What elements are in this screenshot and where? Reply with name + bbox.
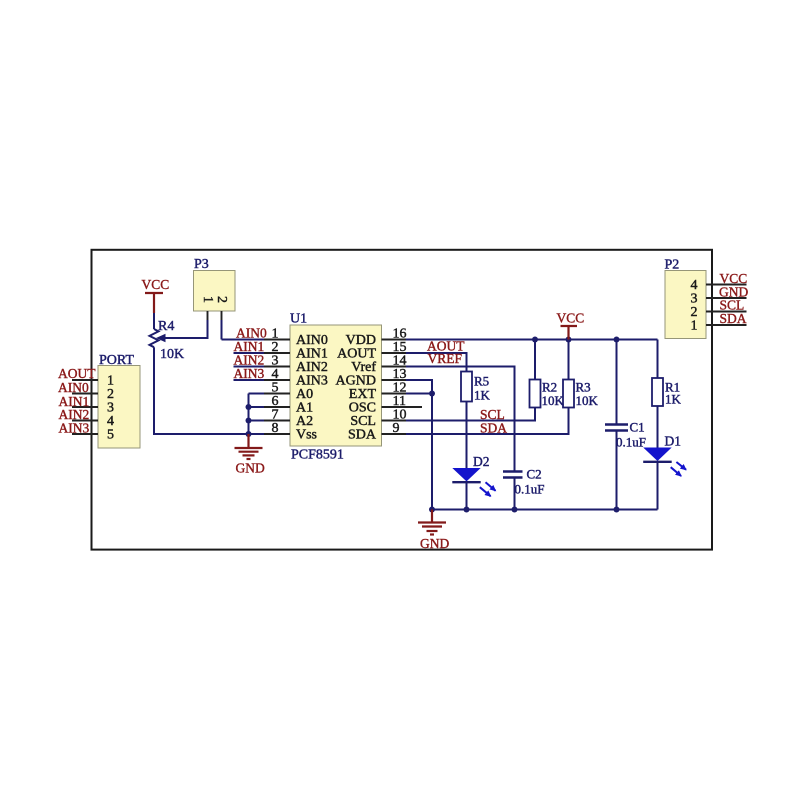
svg-text:AIN0: AIN0 bbox=[58, 380, 89, 395]
svg-text:10K: 10K bbox=[542, 393, 565, 408]
svg-text:U1: U1 bbox=[290, 312, 307, 327]
svg-text:R4: R4 bbox=[158, 319, 174, 334]
svg-text:SDA: SDA bbox=[348, 428, 377, 443]
svg-text:D2: D2 bbox=[473, 454, 490, 469]
svg-text:1K: 1K bbox=[665, 392, 682, 407]
svg-text:C1: C1 bbox=[630, 420, 645, 435]
svg-text:2: 2 bbox=[214, 296, 229, 303]
svg-text:AIN3: AIN3 bbox=[59, 421, 90, 436]
svg-text:SDA: SDA bbox=[480, 421, 507, 436]
svg-text:SDA: SDA bbox=[720, 311, 747, 326]
svg-text:P3: P3 bbox=[194, 257, 209, 272]
svg-text:VCC: VCC bbox=[142, 277, 170, 292]
svg-text:VCC: VCC bbox=[557, 311, 585, 326]
svg-text:9: 9 bbox=[393, 421, 400, 436]
svg-text:1: 1 bbox=[200, 296, 215, 303]
svg-text:5: 5 bbox=[107, 428, 114, 443]
svg-text:10K: 10K bbox=[576, 393, 599, 408]
svg-text:PORT: PORT bbox=[99, 353, 134, 368]
svg-text:1: 1 bbox=[691, 319, 698, 334]
svg-text:PCF8591: PCF8591 bbox=[291, 448, 344, 463]
svg-text:P2: P2 bbox=[665, 258, 680, 273]
svg-text:0.1uF: 0.1uF bbox=[616, 435, 646, 450]
svg-text:Vss: Vss bbox=[296, 428, 317, 443]
svg-text:GND: GND bbox=[236, 461, 265, 476]
svg-text:8: 8 bbox=[272, 421, 279, 436]
svg-text:0.1uF: 0.1uF bbox=[515, 482, 545, 497]
svg-text:R5: R5 bbox=[474, 374, 489, 389]
svg-text:C2: C2 bbox=[527, 467, 542, 482]
svg-text:GND: GND bbox=[420, 536, 449, 551]
svg-text:1K: 1K bbox=[474, 388, 491, 403]
svg-text:10K: 10K bbox=[160, 347, 184, 362]
svg-text:AIN3: AIN3 bbox=[234, 366, 265, 381]
svg-text:VREF: VREF bbox=[428, 351, 463, 366]
svg-text:D1: D1 bbox=[665, 434, 682, 449]
svg-text:AOUT: AOUT bbox=[58, 366, 96, 381]
